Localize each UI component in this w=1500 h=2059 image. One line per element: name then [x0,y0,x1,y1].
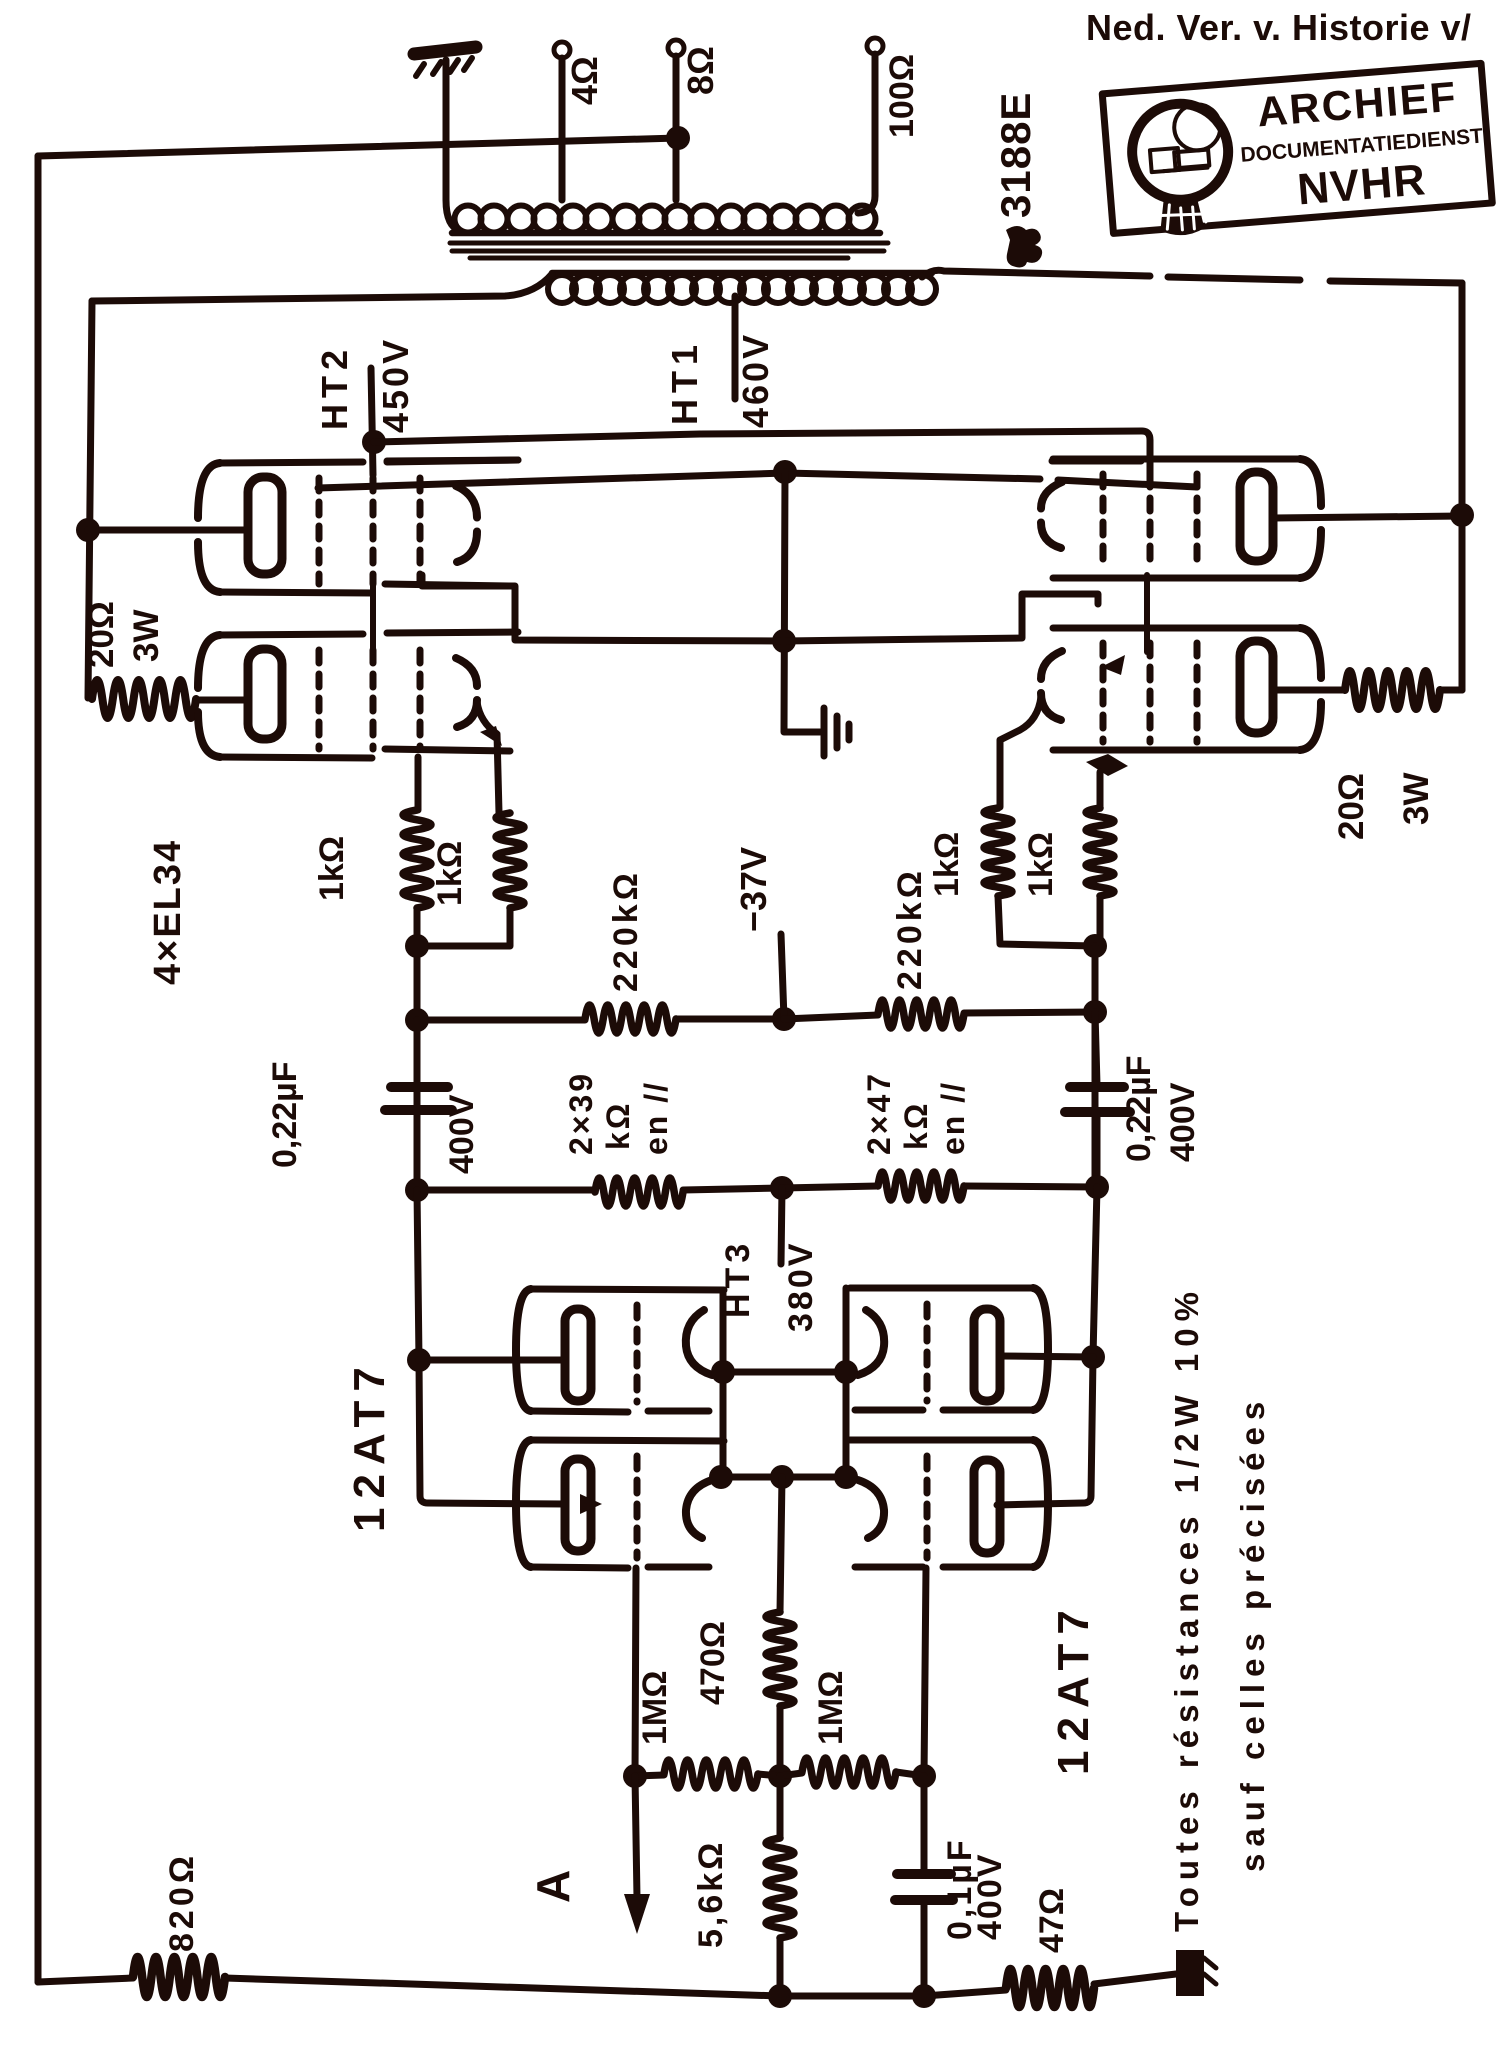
tube 12AT7 V6a upper-right [850,1288,1048,1410]
output transformer T1 secondary winding [548,273,936,303]
wire lower-left plate lead [196,697,252,704]
resistor 1MΩ left [664,1760,758,1788]
wire left 12AT7 plate bus [417,1190,565,1504]
svg-text:380V: 380V [782,1241,820,1332]
wire lower-right plate lead [1273,687,1345,694]
svg-text:100Ω: 100Ω [883,54,921,138]
svg-text:A: A [527,1870,579,1903]
node grid left 2 [405,1008,429,1032]
svg-text:0,22µF: 0,22µF [1120,1055,1158,1162]
resistor 47Ω [1006,1969,1094,2007]
resistor 2×39kΩ en // [417,1187,595,1194]
svg-text:5,6kΩ: 5,6kΩ [692,1840,730,1948]
wire upper-left 12AT7 plate lead [419,1357,565,1364]
node left 2x39k [405,1178,429,1202]
wire ground stem to primary [446,60,460,231]
beam arrow lower-right tube [1101,655,1125,675]
svg-text:en //: en // [935,1081,971,1155]
resistor 20Ω 3W right [1345,671,1440,709]
node HT3 [770,1176,794,1200]
node bridge TL [711,1360,735,1384]
tube EL34 V3 upper-right [1041,459,1321,578]
wire 1k B bottom jog [417,908,510,946]
node right 12AT7 upper plate [1081,1345,1105,1369]
wire cathode rail R1 [318,473,1197,488]
cathode tail lower-left tube [477,702,499,813]
svg-text:2×39: 2×39 [563,1071,599,1155]
tube EL34 V2 lower-left [198,632,518,758]
svg-text:400V: 400V [971,1853,1009,1940]
tube 12AT7 V6b lower-right [850,1440,1048,1567]
node junction 8Ω [666,126,690,150]
svg-text:470Ω: 470Ω [694,1621,732,1705]
svg-text:47Ω: 47Ω [1033,1888,1071,1953]
beam arrow lower-left 12AT7 [580,1494,602,1514]
wire HT2 rail to right screen grids [374,431,1150,478]
node HT2 [362,430,386,454]
wire g2 column gap segment left [370,575,376,652]
wire top-left border to 8Ω junction [38,138,678,156]
svg-text:400V: 400V [1164,1082,1202,1162]
svg-text:3W: 3W [1397,773,1436,826]
capacitor 0,22µF 400V left [385,1020,452,1190]
svg-text:2×47: 2×47 [861,1071,897,1155]
wire g1 column to resistors left [415,757,422,810]
node g1 column blob right [1086,754,1128,776]
cathode bridge 12AT7 [686,1288,884,1538]
svg-text:220kΩ: 220kΩ [891,867,929,990]
svg-text:−37V: −37V [733,847,774,932]
svg-text:820Ω: 820Ω [163,1852,201,1952]
node left 12AT7 upper plate [407,1348,431,1372]
svg-text:12AT7: 12AT7 [1049,1601,1098,1775]
wire HT1 tap stub [732,296,739,399]
node grid right 1 [1083,934,1107,958]
wire HT1 rail segment left [387,460,518,462]
svg-text:Toutes résistances 1/2W 10%: Toutes résistances 1/2W 10% [1168,1285,1205,1932]
beam arrow lower-left tube [480,726,502,746]
resistor 1kΩ grid stopper A [403,810,431,908]
resistor 820Ω [133,1957,225,1997]
wire secondary left end to HT2 bus [92,274,552,301]
wire grid node column right [1092,946,1099,1187]
tube 12AT7 V5a upper-left [516,1289,724,1412]
svg-text:4Ω: 4Ω [564,56,605,105]
wire upper-right plate lead [1273,516,1462,518]
wire upper-left plate lead [88,527,250,534]
wire g2 column gap segment right [1144,575,1150,652]
tube 12AT7 V5b lower-left [516,1440,724,1568]
wire center ground drop [784,472,820,732]
node grid rail center [772,629,796,653]
svg-text:20Ω: 20Ω [82,601,121,668]
svg-text:1kΩ: 1kΩ [928,832,966,897]
svg-text:3W: 3W [127,610,166,663]
svg-text:1MΩ: 1MΩ [812,1671,850,1746]
svg-text:4×EL34: 4×EL34 [147,839,189,985]
svg-text:400V: 400V [443,1094,481,1174]
chassis terminal bottom right [1176,1950,1216,1996]
resistor 220kΩ left [417,1017,585,1024]
wire grid node column left [414,908,421,1190]
ground symbol [824,708,849,756]
svg-text:3188E: 3188E [992,92,1039,218]
node bridge BC [770,1465,794,1489]
input arrow A [635,1776,637,1898]
svg-text:1kΩ: 1kΩ [431,841,469,906]
svg-text:450V: 450V [375,337,416,433]
transformer core [450,243,888,258]
svg-text:en //: en // [638,1081,674,1155]
node cathode rail center [773,460,797,484]
wire -37V stub [781,934,784,1019]
wire left border [35,156,42,1982]
terminal 4Ω tap [554,42,570,200]
resistor 5,6kΩ [777,1776,784,1996]
svg-text:1MΩ: 1MΩ [636,1671,674,1746]
svg-text:0,22µF: 0,22µF [266,1061,304,1168]
wire upper-right 12AT7 plate lead [1000,1356,1093,1357]
wire left plate bus [88,301,92,698]
wire 470Ω column [780,1477,782,1776]
wire g1 column to resistor right [1097,772,1104,808]
output transformer T1 primary winding [452,206,880,234]
wire grid rail R2 [422,575,1098,641]
svg-text:kΩ: kΩ [898,1101,934,1150]
node junction upper-left plate [76,518,100,542]
wire right 12AT7 plate bus [997,1187,1097,1505]
svg-text:NVHR: NVHR [1296,155,1428,214]
svg-text:220kΩ: 220kΩ [607,869,645,992]
cathode tail lower-right tube [1000,697,1041,807]
svg-text:Ned. Ver. v. Historie v/: Ned. Ver. v. Historie v/ [1086,7,1472,48]
svg-text:HT2: HT2 [314,344,355,430]
resistor 1kΩ right B [1086,808,1114,896]
tube EL34 V1 upper-left [198,460,518,593]
resistor 1kΩ right A [984,808,1012,896]
svg-text:460V: 460V [735,332,776,428]
svg-text:sauf celles précisées: sauf celles précisées [1234,1395,1271,1872]
node right grid bottom [912,1764,936,1788]
capacitor 0,22µF 400V right [1065,1012,1130,1187]
svg-text:8Ω: 8Ω [680,46,721,95]
svg-text:HT1: HT1 [664,339,705,425]
logo mark below 3188E [1006,226,1042,267]
node bridge BL [709,1465,733,1489]
resistor 2×47kΩ en // [878,1172,964,1200]
capacitor 0,1µF 400V [895,1776,953,1996]
wire segment right of arc to HT2 drop [1052,458,1141,465]
terminal 100Ω tap [858,38,883,213]
resistor 1MΩ right [802,1758,896,1786]
tube EL34 V4 lower-right [1041,628,1321,750]
svg-text:12AT7: 12AT7 [345,1358,394,1532]
node grid right 2 [1083,1000,1107,1024]
wire HT2 tap stub [371,368,373,475]
node cathode 470 bottom [768,1764,792,1788]
node right plate bus junction [1450,503,1474,527]
wire secondary right end to right plate bus [922,270,1462,283]
ground chassis terminal top [414,47,476,76]
resistor 220kΩ right [878,1000,964,1028]
svg-text:1kΩ: 1kΩ [313,836,351,901]
wire left grid column down [635,1568,636,1776]
node grid left 1 [405,934,429,958]
node bias center [772,1007,796,1031]
node input grid left [623,1764,647,1788]
stamp ARCHIEF DOCUMENTATIEDIENST NVHR [1102,63,1493,240]
wire right grid column down [924,1568,926,1776]
node bridge BR [834,1465,858,1489]
resistor 1kΩ grid stopper B [496,813,524,908]
node bridge TR [834,1360,858,1384]
wire right plate bus [1459,283,1466,690]
wire HT3 stub [781,1188,782,1264]
bottom ground bus [38,1974,1176,1996]
wire right 1k jog [998,896,1100,946]
node bus cap [912,1984,936,2008]
resistor 470Ω [766,1612,794,1706]
resistor 20Ω 3W left [92,680,196,718]
node right 2x47k [1085,1175,1109,1199]
svg-text:20Ω: 20Ω [1332,773,1371,840]
svg-text:kΩ: kΩ [600,1101,636,1150]
node bus 5,6k [768,1984,792,2008]
terminal 8Ω tap [668,40,684,200]
svg-text:1kΩ: 1kΩ [1022,832,1060,897]
